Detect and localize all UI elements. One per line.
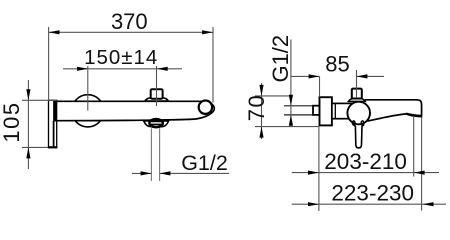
body left edge bar [54,101,58,121]
top dome right connection [145,98,169,101]
spout lip [405,113,421,117]
extension line spout outlet [413,116,415,177]
pipe nut [313,106,320,115]
supply pipe [284,105,313,107]
svg-text:105: 105 [0,101,24,142]
label G1/2 bottom left view [132,172,151,174]
svg-text:85: 85 [325,52,349,77]
centerline left connection [87,66,89,111]
dimension 105 [27,80,29,169]
svg-text:223-230: 223-230 [331,181,414,206]
centerline right connection [156,66,158,106]
bottom outlet dome [144,121,169,127]
diverter knob [352,89,362,99]
valve body circle [347,102,370,125]
svg-text:70: 70 [244,94,269,121]
lever pivot ear left [352,121,355,125]
wall plate [49,100,57,147]
svg-text:G1/2: G1/2 [181,151,228,175]
dimension 203-210 [292,172,439,174]
svg-text:G1/2: G1/2 [268,35,293,83]
spout end ring [199,101,212,114]
dimension 370 [49,31,213,33]
wall plate inner edge [53,121,55,147]
dimension 70 [261,83,263,139]
body cylinder [332,103,354,118]
thread extension lines G1/2 [150,128,152,181]
top nut right connection [151,89,163,98]
escutcheon circle left connection [72,95,104,127]
extension line spout tip [421,117,423,211]
mixer body front silhouette [54,101,214,120]
spout side view [352,100,422,121]
dimension 223-230 [292,203,446,205]
svg-text:203-210: 203-210 [324,149,407,174]
svg-text:150±14: 150±14 [84,46,158,69]
outlet ellipse [149,119,162,127]
svg-text:370: 370 [111,9,148,34]
dimension 150±14 [63,68,182,70]
wall flange [320,97,332,125]
lever handle [353,121,364,148]
wall plane extension line [318,126,320,211]
lever pivot ear right [361,121,364,125]
dimension 85 [291,75,320,77]
wall plate bottom edge [48,146,58,148]
knob flare [348,99,365,102]
